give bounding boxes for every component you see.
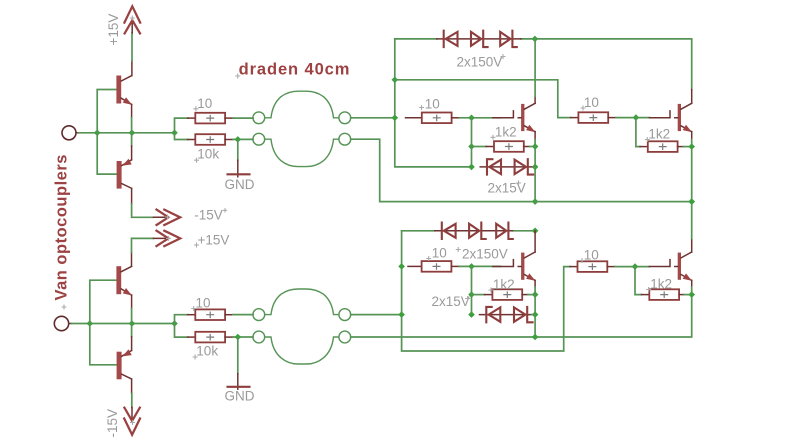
svg-text:2x150V: 2x150V: [457, 55, 503, 70]
origin cross 10k b: [193, 355, 198, 360]
wire Q2b emitter down: [691, 280, 693, 287]
node base-junction top: [94, 130, 101, 137]
wire cable2 TR to junction: [351, 314, 402, 316]
origin cross supply top: [130, 16, 135, 21]
wire pnp2 collector to -15V bottom: [131, 379, 133, 393]
origin cross 2x150V bottom: [456, 247, 461, 252]
wire R10e junction to resistor: [408, 265, 422, 267]
node Q1 base junction: [468, 115, 475, 122]
wire emitter column bottom: [131, 295, 133, 308]
node emitters row right: [688, 198, 695, 205]
svg-text:10: 10: [425, 97, 440, 112]
lead R10e right: [451, 265, 459, 267]
connector circle cable BR: [339, 133, 351, 145]
transistor Q1 npn out: [493, 103, 536, 132]
node mid-row junction: [392, 77, 399, 84]
lead R1k2b right: [678, 146, 684, 148]
lead R10d left: [188, 314, 196, 316]
origin cross 1k2c: [489, 288, 494, 293]
diode D3 (zener right) 150V top: [500, 31, 517, 47]
wire pin stub P2: [69, 323, 72, 325]
node Q2b base junction: [632, 263, 639, 270]
origin cross -15V down: [130, 420, 135, 425]
supply +15V arrow (right): [157, 231, 181, 246]
wire pin stub P1: [76, 132, 79, 134]
lead R1k2c right: [522, 294, 528, 296]
svg-text:10: 10: [432, 246, 447, 261]
diode D1 (left) 150V top: [444, 31, 458, 47]
wire 1k2a branch: [471, 118, 473, 167]
svg-text:GND: GND: [225, 177, 255, 192]
wire npn2 collector to +15V arrow: [131, 253, 133, 267]
lead R1k2d right: [679, 294, 684, 296]
node collector Q1 top: [532, 36, 539, 43]
origin cross 1k2b: [645, 137, 650, 142]
lead R1k2d left: [642, 294, 650, 296]
svg-text:-15V: -15V: [105, 409, 120, 438]
wire collector to +15V top: [131, 61, 133, 76]
wire pnp collector to -15V arrow: [131, 189, 133, 205]
origin cross +15V arrow: [166, 236, 171, 241]
svg-text:1k2: 1k2: [493, 277, 515, 292]
origin cross 2x150V top: [501, 54, 506, 59]
wire R10kb to cable: [233, 336, 253, 338]
supply -15V arrow down: [124, 408, 140, 435]
wire 15V row right: [533, 166, 535, 168]
input pin circle P1: [62, 126, 76, 140]
wire gnd stub bottom: [237, 337, 239, 374]
node 1k2a left: [468, 143, 475, 150]
ground symbol GND2: [237, 374, 239, 390]
origin cross 2x15V top: [516, 181, 521, 186]
wire 2x150V row top: [395, 39, 692, 90]
origin cross 10c: [581, 106, 586, 111]
lead R1k2a left: [486, 146, 494, 148]
wire through diode row 150V bottom: [435, 230, 513, 232]
origin cross 10e: [426, 256, 431, 261]
cable2 bulge top wire: [265, 289, 339, 315]
svg-text:10k: 10k: [197, 147, 219, 162]
svg-text:2x150V: 2x150V: [462, 246, 508, 261]
lead R10d right: [225, 314, 233, 316]
wire 1k2c branch: [471, 266, 473, 314]
cable bulge bottom wire: [265, 139, 339, 166]
wire Q1 emitter down: [534, 132, 536, 140]
wire through 15V diode row bottom: [480, 314, 533, 316]
connector circle cable TL: [253, 112, 265, 124]
node 15Vrow left bottom: [468, 311, 475, 318]
node Q2 base junction: [633, 114, 640, 121]
origin cross +15V label: [194, 243, 199, 248]
wire base column top: [97, 90, 116, 175]
wire R1k2b to Q2 emitter: [683, 146, 691, 148]
wire emitter column top: [131, 105, 133, 118]
wire to R1k2a: [472, 146, 487, 148]
resistor R10d (10): [195, 309, 225, 320]
lead R10k left: [188, 139, 196, 141]
origin cross 10a: [193, 106, 198, 111]
wire R1k2d to Q2b emitter: [684, 294, 692, 296]
resistor R10kb (10k): [195, 332, 225, 343]
node Q1 emitter 15V row: [532, 164, 539, 171]
wire R10f to Q2b base: [615, 266, 649, 268]
lead R10kb right: [225, 336, 233, 338]
connector circle cable2 BL: [253, 331, 265, 343]
wire to R1k2c: [472, 294, 485, 296]
node Q2b emitter 1k2: [688, 291, 695, 298]
diode D5 (zener right) 15V top: [515, 159, 534, 174]
input pin circle P2: [54, 316, 68, 330]
wire R1k2a to emitter: [530, 146, 536, 148]
wire gnd stub top: [237, 139, 239, 160]
diode D9 (zener left) 15V bottom: [486, 307, 500, 322]
node split-junction bottom: [171, 320, 178, 327]
wire 1k2d branch: [635, 267, 642, 295]
node emitters row left: [532, 198, 539, 205]
wire through diode row 150V top: [437, 38, 521, 40]
lead R10a right: [225, 117, 233, 119]
wire R10e to Q1b base: [459, 265, 500, 267]
diode D6 (left) 150V bottom: [442, 223, 456, 239]
node base-junction bottom: [87, 320, 94, 327]
resistor R1k2b (1k2): [648, 141, 678, 152]
origin cross 10b: [419, 105, 424, 110]
wire R10c to Q2 base node: [616, 117, 649, 119]
lead R10k right: [225, 139, 233, 141]
origin cross 1k2d: [646, 287, 651, 292]
diode D7 (zener right) 150V bottom: [469, 223, 486, 239]
svg-text:10: 10: [584, 248, 599, 263]
resistor R10f (10): [578, 261, 608, 272]
transistor Q1B npn: [116, 266, 132, 295]
node emitter-junction bottom: [129, 320, 136, 327]
svg-text:10: 10: [196, 295, 211, 310]
svg-text:10k: 10k: [196, 344, 218, 359]
wire mid row top: [395, 80, 571, 118]
wire to R10kb: [175, 324, 188, 338]
node main row junction bottom: [398, 263, 405, 270]
svg-text:draden 40cm: draden 40cm: [239, 60, 351, 78]
connector circle cable2 TR: [339, 309, 351, 321]
wire left column x401.6: [402, 231, 570, 351]
resistor R10e (10): [422, 261, 452, 272]
wire cable TR to junction: [351, 117, 395, 119]
cable bulge top wire: [265, 91, 339, 118]
svg-text:+15V: +15V: [106, 14, 121, 46]
svg-text:-15V: -15V: [194, 208, 223, 223]
node emitter-junction top: [129, 130, 136, 137]
node split-junction top: [171, 130, 178, 137]
wire R10a to cable: [233, 117, 253, 119]
resistor R1k2a (1k2): [494, 141, 524, 152]
node Q1b emitter cable row: [532, 334, 539, 341]
wire R10d to cable: [233, 314, 253, 316]
wire Q1 collector up: [534, 97, 536, 104]
node Q1 emitter 1k2: [532, 143, 539, 150]
wire R10b to Q1 base: [459, 117, 500, 119]
connector circle cable TR: [339, 112, 351, 124]
lead R10kb left: [188, 336, 196, 338]
ground symbol GND1: [237, 160, 239, 177]
origin cross draden: [235, 74, 240, 79]
origin cross Van optocouplers: [62, 305, 67, 310]
connector circle cable2 TL: [253, 309, 265, 321]
origin cross 1k2a: [491, 135, 496, 140]
lead R1k2a right: [524, 146, 530, 148]
svg-text:+15V: +15V: [198, 233, 230, 248]
svg-text:10: 10: [197, 96, 212, 111]
wire Q1b collector up: [534, 231, 536, 252]
node Q1b emitter 1k2: [532, 291, 539, 298]
supply +15V arrow top: [124, 6, 140, 33]
supply -15V arrow (right): [157, 210, 181, 225]
transistor Q1b npn out: [493, 252, 536, 281]
svg-text:GND: GND: [225, 389, 255, 404]
svg-text:Van optocouplers: Van optocouplers: [53, 154, 71, 300]
wire R1k2c to emitter: [528, 294, 535, 296]
connector circle cable2 BR: [339, 331, 351, 343]
svg-text:10: 10: [584, 95, 599, 110]
wire input row top: [79, 132, 175, 134]
connector circle cable BL: [253, 133, 265, 145]
resistor R10k (10k): [195, 134, 225, 145]
node cable junction: [392, 115, 399, 122]
lead R1k2b left: [640, 146, 648, 148]
node Q2 emitter 1k2: [688, 143, 695, 150]
diode D8 (zener right) 150V bottom: [496, 223, 513, 239]
wire Q2b collector up: [691, 238, 693, 252]
wire R10k to cable: [233, 138, 253, 140]
node gnd junction bottom: [235, 334, 242, 341]
wire Q2 emitter down: [691, 132, 693, 140]
wire input row bottom: [72, 323, 175, 325]
svg-text:1k2: 1k2: [650, 276, 672, 291]
diode D10 (zener right) 15V bottom: [514, 307, 533, 322]
wire Q1b emitter down: [534, 280, 536, 287]
node Q1b emitter 15V row: [532, 311, 539, 318]
lead R10f left: [570, 266, 578, 268]
wire base column bottom: [90, 280, 117, 365]
resistor R10a (10): [195, 113, 225, 124]
wire 15V row right bottom: [531, 314, 535, 316]
node gnd junction top: [235, 136, 242, 143]
wire to R10k: [175, 133, 188, 140]
wire R10b junction to resistor: [406, 117, 422, 119]
wire Q2 collector up: [691, 90, 693, 104]
origin cross 10f: [580, 258, 585, 263]
origin cross -15V arrow: [165, 215, 170, 220]
resistor R10c (10): [578, 112, 608, 123]
node 1k2c left: [468, 291, 475, 298]
wire cable2 BR to emitters row bottom: [351, 295, 692, 337]
lead R10a left: [188, 117, 196, 119]
node Q2b collector emitters row: [688, 198, 695, 205]
wire to R10d: [175, 315, 188, 324]
diode D4 (zener left) 15V top: [487, 159, 501, 174]
lead R10c right: [608, 117, 616, 119]
lead R1k2c left: [485, 294, 493, 296]
wire 2x150V row bottom: [402, 230, 535, 232]
transistor Q1A npn: [116, 76, 132, 105]
wire to R10a: [175, 118, 188, 133]
transistor Q2 npn out: [649, 103, 692, 132]
resistor R10b (10): [422, 113, 452, 124]
svg-text:2x15V: 2x15V: [432, 294, 470, 309]
transistor Q2A pnp: [117, 159, 132, 189]
lead R10b right: [452, 117, 460, 119]
lead R10f right: [607, 266, 615, 268]
cable2 bulge bottom wire: [265, 337, 339, 364]
origin cross 10k a: [194, 158, 199, 163]
origin cross 2x15V bottom: [465, 296, 470, 301]
transistor Q2b npn out: [649, 252, 692, 281]
node cable2 junction: [398, 311, 405, 318]
lead R10c left: [571, 117, 579, 119]
transistor Q2B pnp: [117, 349, 132, 379]
origin cross 10d: [191, 306, 196, 311]
svg-text:1k2: 1k2: [495, 124, 517, 139]
node Q1b base junction: [468, 263, 475, 270]
resistor R1k2c (1k2): [492, 289, 522, 300]
diode D2 (zener right) 150V top: [471, 31, 488, 47]
resistor R1k2d (1k2): [649, 289, 679, 300]
wire left column x394.8: [395, 39, 471, 167]
wire 1k2b branch: [636, 118, 640, 147]
wire through 15V diode row top: [480, 166, 533, 168]
node 15Vrow left: [468, 164, 475, 171]
wire emitters row: [535, 201, 692, 203]
svg-text:1k2: 1k2: [648, 126, 670, 141]
node 150V row right bottom: [532, 228, 539, 235]
wire cable BR down: [351, 139, 535, 201]
